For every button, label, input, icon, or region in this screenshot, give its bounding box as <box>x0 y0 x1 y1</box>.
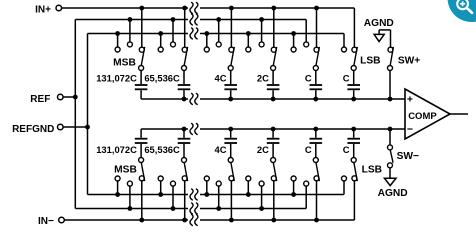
switch S4t throw contacts <box>271 47 276 52</box>
wire switch S1t REFGND throw stub <box>117 34 119 48</box>
wire switch S3b REFGND throw stub <box>206 181 208 195</box>
node rail REF junction g1b <box>127 206 132 211</box>
svg-text:SW−: SW− <box>397 151 419 162</box>
wire SW- contact to AGND <box>389 168 391 178</box>
switch S1b blade <box>141 163 144 182</box>
wire capacitor C2b to bus <box>183 129 185 138</box>
switch S5b throw contacts <box>314 176 319 181</box>
capacitor C6b C <box>347 142 360 144</box>
wire pole to capacitor C1t <box>140 71 142 85</box>
node REFGND junction <box>85 125 90 130</box>
terminal REF <box>58 94 64 100</box>
capacitor C5b C <box>310 142 323 144</box>
wire pole to capacitor C3b <box>230 144 232 158</box>
wire capacitor C5t to bus <box>315 90 317 99</box>
wire SW+ pole to top bus <box>389 71 391 100</box>
wire capacitor C1b to bus <box>140 129 142 138</box>
node rail IN+ junction g2 <box>182 6 187 11</box>
node rail REFGND junction g4 <box>246 31 251 36</box>
wire pole to capacitor C2t <box>183 71 185 85</box>
wire REFGND rail (top) <box>88 33 189 35</box>
wire switch S4t IN+ throw stub <box>273 8 275 47</box>
node rail IN- junction g1 <box>139 218 144 223</box>
terminal IN+ <box>56 5 62 11</box>
wire REFGND vertical <box>87 34 89 195</box>
wire capacitor C3t to bus <box>230 90 232 99</box>
wire switch S1b REFGND throw stub <box>117 181 119 195</box>
node rail REF junction g2b <box>171 206 176 211</box>
node rail IN+ junction g1 <box>139 6 144 11</box>
wire switch S4b IN- throw stub <box>273 181 275 220</box>
wire switch S5t IN+ throw stub <box>316 8 318 47</box>
node rail IN- junction g3 <box>229 218 234 223</box>
wire switch S4b REF throw stub <box>261 186 263 208</box>
node rail REFGND junction g1 <box>115 31 120 36</box>
node bus junction C5b <box>313 127 318 132</box>
svg-text:REF: REF <box>30 94 50 105</box>
wire switch S3t REFGND throw stub <box>206 34 208 48</box>
switch S2t pole <box>182 66 187 71</box>
node bus junction C6b <box>351 127 356 132</box>
node rail REF junction g2 <box>171 17 176 22</box>
svg-text:131,072C: 131,072C <box>96 144 137 155</box>
wire pole to capacitor C3t <box>230 71 232 85</box>
capacitor C4b 2C <box>267 142 280 144</box>
wire switch S2t REFGND throw stub <box>160 34 162 48</box>
wire switch S4b REFGND throw stub <box>247 181 249 195</box>
svg-text:MSB: MSB <box>113 58 136 69</box>
capacitor C4t 2C <box>267 84 280 86</box>
wire switch S5b REF throw stub <box>305 186 307 208</box>
switch S5t pole <box>313 66 318 71</box>
capacitor C2t 65,536C <box>178 84 191 86</box>
node bus junction C2b <box>182 127 187 132</box>
wire capacitor C2t to bus <box>183 90 185 99</box>
svg-text:C: C <box>305 144 312 155</box>
switch S1b pole <box>139 158 144 163</box>
switch S1t throw contacts <box>139 47 144 52</box>
wire switch S2t REF throw stub <box>172 20 174 42</box>
svg-text:SW+: SW+ <box>398 56 420 67</box>
op-amp COMP comparator <box>405 89 450 139</box>
node rail REF junction g3 <box>216 17 221 22</box>
wire switch S6b IN- throw stub <box>353 181 355 220</box>
svg-text:C: C <box>343 72 350 83</box>
wire switch S5b REFGND throw stub <box>293 181 295 195</box>
switch S1b throw contacts <box>139 176 144 181</box>
node bus junction C5t <box>313 97 318 102</box>
wire capacitor C6t to bus <box>353 90 355 99</box>
wire break mark <box>190 123 193 134</box>
node rail REFGND junction g5b <box>291 192 296 197</box>
wire REF to bus <box>63 96 75 98</box>
wire switch S3t REF throw stub <box>218 20 220 42</box>
node bus junction C2t <box>182 97 187 102</box>
wire switch S1t REF throw stub <box>129 20 131 42</box>
wire switch S3b REF throw stub <box>218 186 220 208</box>
switch S4b blade <box>273 163 276 182</box>
svg-text:MSB: MSB <box>114 164 137 175</box>
ground AGND bottom symbol <box>384 178 396 185</box>
wire pole to capacitor C1b <box>140 144 142 158</box>
wire break mark <box>190 2 193 13</box>
wire REF vertical <box>74 20 76 209</box>
svg-text:4C: 4C <box>215 144 227 155</box>
switch S6b blade <box>354 163 357 182</box>
wire break mark <box>190 189 193 200</box>
wire switch S4t REFGND throw stub <box>247 34 249 48</box>
switch S4b throw contacts <box>271 176 276 181</box>
node rail REF junction g1 <box>127 17 132 22</box>
svg-text:REFGND: REFGND <box>12 124 54 135</box>
switch S5b pole <box>313 158 318 163</box>
wire pole to capacitor C4t <box>272 71 274 85</box>
node rail REF junction g4b <box>259 206 264 211</box>
node rail REFGND junction g4b <box>246 192 251 197</box>
node bus junction C3t <box>228 97 233 102</box>
wire capacitor C1t to bus <box>140 90 142 99</box>
wire SW- pole to bottom bus <box>389 129 391 145</box>
node rail IN+ junction g3 <box>229 6 234 11</box>
switch S3t pole <box>228 66 233 71</box>
switch S6t pole <box>351 66 356 71</box>
wire top capacitor bus <box>141 98 188 100</box>
svg-text:2C: 2C <box>257 144 269 155</box>
wire switch S6t IN+ throw stub <box>353 8 355 47</box>
switch S2b blade <box>184 163 187 182</box>
switch SW+ pole <box>388 66 393 71</box>
wire switch S1b IN- throw stub <box>141 181 143 220</box>
terminal IN- <box>59 217 65 223</box>
node rail REFGND junction g3b <box>204 192 209 197</box>
switch S6b throw contacts <box>352 176 357 181</box>
wire pole to capacitor C6b <box>353 144 355 158</box>
wire capacitor C4b to bus <box>272 129 274 138</box>
svg-text:C: C <box>343 144 350 155</box>
node REF junction <box>73 95 78 100</box>
wire switch S2b REF throw stub <box>172 186 174 208</box>
ground AGND top symbol <box>374 34 384 41</box>
wire break mark <box>190 28 193 39</box>
switch S6t throw contacts <box>352 47 357 52</box>
switch S1t blade <box>141 47 144 66</box>
wire switch S1b REF throw stub <box>129 186 131 208</box>
wire capacitor C3b to bus <box>230 129 232 138</box>
switch S4t pole <box>271 66 276 71</box>
svg-text:65,536C: 65,536C <box>144 144 180 155</box>
wire IN+ rail (top) <box>62 7 188 9</box>
wire REF rail (top) <box>75 19 188 21</box>
node rail REFGND junction g5 <box>291 31 296 36</box>
switch S3b throw contacts <box>229 176 234 181</box>
switch S1t pole <box>139 66 144 71</box>
svg-text:+: + <box>407 94 413 106</box>
switch S3b pole <box>228 158 233 163</box>
switch S3t blade <box>231 47 234 66</box>
wire pole to capacitor C2b <box>183 144 185 158</box>
wire COMP output <box>450 113 468 115</box>
wire switch S5b IN- throw stub <box>316 181 318 220</box>
switch SW- pole <box>388 145 393 150</box>
node bus junction C3b <box>228 127 233 132</box>
wire AGND to SW+ contact <box>379 29 390 31</box>
svg-text:4C: 4C <box>215 72 227 83</box>
switch S2b throw contacts <box>182 176 187 181</box>
svg-text:AGND: AGND <box>364 18 394 29</box>
wire break mark <box>190 214 193 225</box>
switch S5t blade <box>316 47 319 66</box>
wire break mark <box>190 93 193 104</box>
wire bottom capacitor bus <box>141 128 188 130</box>
svg-text:COMP: COMP <box>408 111 437 122</box>
node rail IN+ junction g4 <box>271 6 276 11</box>
node bottom bus SW- junction <box>388 127 393 132</box>
switch SW+ blade <box>390 47 393 66</box>
svg-text:65,536C: 65,536C <box>144 72 180 83</box>
wire IN- rail (bottom) <box>65 219 189 221</box>
node rail REFGND junction g1b <box>115 192 120 197</box>
terminal REFGND <box>58 124 64 130</box>
wire pole to capacitor C4b <box>272 144 274 158</box>
wire break mark <box>190 203 193 214</box>
wire pole to capacitor C6t <box>353 71 355 85</box>
wire switch S2t IN+ throw stub <box>184 8 186 47</box>
node rail REF junction g4 <box>259 17 264 22</box>
switch SW- contact <box>388 163 393 168</box>
wire capacitor C6b to bus <box>353 129 355 138</box>
capacitor C3b 4C <box>224 142 237 144</box>
svg-text:AGND: AGND <box>378 188 408 199</box>
zoom icon badge <box>448 0 476 22</box>
switch S5t throw contacts <box>314 47 319 52</box>
node bus junction C4b <box>271 127 276 132</box>
capacitor C1b 131,072C <box>135 142 148 144</box>
wire switch S3t IN+ throw stub <box>230 8 232 47</box>
node rail REFGND junction g2b <box>158 192 163 197</box>
wire capacitor C5b to bus <box>315 129 317 138</box>
node rail IN- junction g2 <box>182 218 187 223</box>
node bus junction C4t <box>271 97 276 102</box>
capacitor C6t C <box>347 84 360 86</box>
wire switch S1t IN+ throw stub <box>141 8 143 47</box>
switch S4b pole <box>271 158 276 163</box>
node top bus SW+ junction <box>388 97 393 102</box>
wire switch S5t REFGND throw stub <box>293 34 295 48</box>
node rail REFGND junction g2 <box>158 31 163 36</box>
node rail IN- junction g4 <box>271 218 276 223</box>
node bus junction C6t <box>351 97 356 102</box>
capacitor C5t C <box>310 84 323 86</box>
svg-text:IN+: IN+ <box>35 5 51 16</box>
capacitor C3t 4C <box>224 84 237 86</box>
switch SW+ contact <box>388 47 393 52</box>
wire switch S6b REFGND throw stub <box>343 181 345 195</box>
switch S4t blade <box>273 47 276 66</box>
svg-text:IN−: IN− <box>38 216 54 227</box>
wire switch S5t REF throw stub <box>305 20 307 42</box>
switch S2t throw contacts <box>182 47 187 52</box>
wire switch S3b IN- throw stub <box>230 181 232 220</box>
wire break mark <box>190 14 193 25</box>
wire switch S2b IN- throw stub <box>184 181 186 220</box>
wire capacitor C4t to bus <box>272 90 274 99</box>
wire switch S2b REFGND throw stub <box>160 181 162 195</box>
node rail IN- junction g5 <box>314 218 319 223</box>
switch S5b blade <box>316 163 319 182</box>
wire REFGND rail (bottom) <box>88 194 189 196</box>
wire REFGND to bus <box>63 126 87 128</box>
switch S6t blade <box>354 47 357 66</box>
wire switch S4t REF throw stub <box>261 20 263 42</box>
wire switch S6t REFGND throw stub <box>343 34 345 48</box>
node rail REF junction g3b <box>216 206 221 211</box>
node rail REFGND junction g3 <box>204 31 209 36</box>
switch S2b pole <box>182 158 187 163</box>
wire REF rail (bottom) <box>75 208 188 210</box>
svg-text:−: − <box>407 123 413 135</box>
switch S2t blade <box>184 47 187 66</box>
svg-text:LSB: LSB <box>362 164 382 175</box>
switch S6b pole <box>351 158 356 163</box>
switch S3b blade <box>231 163 234 182</box>
capacitor C2b 65,536C <box>178 142 191 144</box>
wire pole to capacitor C5t <box>315 71 317 85</box>
svg-text:C: C <box>305 72 312 83</box>
switch SW- blade <box>390 150 393 163</box>
svg-text:LSB: LSB <box>360 56 380 67</box>
wire pole to capacitor C5b <box>315 144 317 158</box>
svg-text:2C: 2C <box>257 72 269 83</box>
switch S3t throw contacts <box>229 47 234 52</box>
svg-text:131,072C: 131,072C <box>96 72 137 83</box>
node rail IN+ junction g5 <box>314 6 319 11</box>
capacitor C1t 131,072C <box>135 84 148 86</box>
